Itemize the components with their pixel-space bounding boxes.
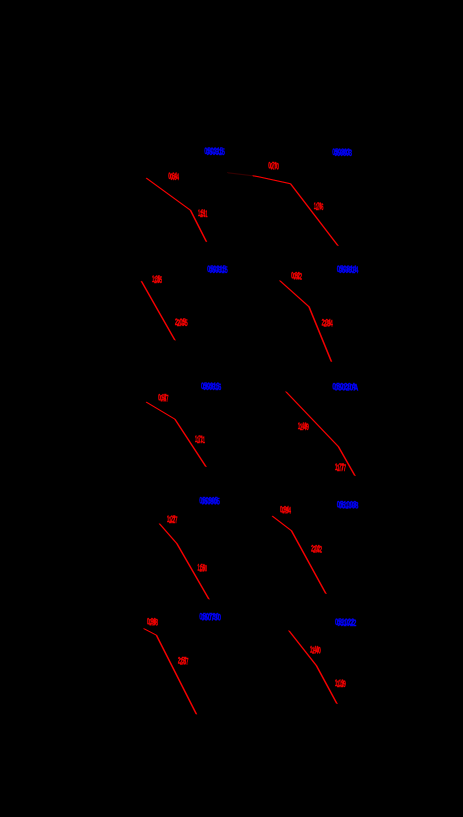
wire row4-right polyline bbox=[272, 516, 326, 594]
wire row5-left polyline bbox=[144, 629, 197, 715]
wire row1-right lead-in (faint) bbox=[227, 173, 252, 176]
wire row5-right polyline bbox=[289, 631, 337, 704]
wire row2-right polyline bbox=[280, 281, 332, 362]
wire row3-right polyline bbox=[286, 392, 355, 476]
wire row1-right polyline bbox=[252, 176, 338, 246]
duplicate offset copy of labels (figure is double-printed) bbox=[149, 147, 359, 689]
wire row4-left polyline bbox=[159, 524, 209, 600]
wire row2-left polyline bbox=[141, 281, 175, 340]
duplicate offset copy of wires (figure is double-printed) bbox=[142, 173, 356, 715]
wire row1-left polyline bbox=[146, 178, 206, 242]
wire row3-left polyline bbox=[146, 402, 206, 467]
